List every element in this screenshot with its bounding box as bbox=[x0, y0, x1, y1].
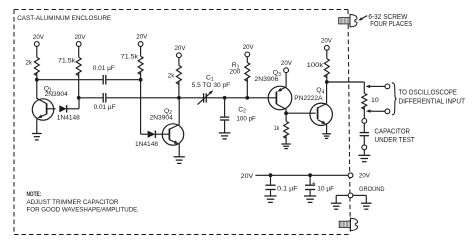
wire output to enclosure edge bbox=[327, 82, 365, 93]
wire ground right arm bbox=[353, 195, 367, 202]
diode D1 1N4148 bbox=[57, 105, 80, 122]
svg-text:CAST-ALUMINUM ENCLOSURE: CAST-ALUMINUM ENCLOSURE bbox=[17, 15, 111, 22]
terminal cap-under-test bottom bbox=[362, 145, 367, 150]
label TO OSCILLOSCOPE bbox=[399, 89, 466, 106]
svg-text:FOUR PLACES: FOUR PLACES bbox=[370, 21, 412, 28]
terminal 20V (71.5k at x=78) bbox=[75, 34, 87, 46]
svg-text:DIFFERENTIAL INPUT: DIFFERENTIAL INPUT bbox=[399, 97, 466, 105]
wire ground left arm bbox=[336, 195, 348, 202]
label 6-32 SCREW bbox=[358, 14, 412, 28]
wire Q2 emitter bbox=[169, 140, 179, 157]
wire bottom rail bbox=[255, 174, 348, 176]
junction rail1-x37 bbox=[35, 78, 39, 82]
junction rail2-x247 bbox=[245, 96, 249, 100]
ground cap-under-test bbox=[358, 155, 370, 161]
junction Q3-collector node bbox=[284, 111, 288, 115]
brace to oscilloscope bbox=[392, 83, 396, 115]
terminal scope upper bbox=[385, 84, 390, 89]
svg-text:2N3904: 2N3904 bbox=[45, 91, 68, 98]
wire Q1 base bbox=[47, 108, 56, 110]
terminal 20V (Q3) bbox=[281, 60, 293, 73]
svg-text:2k: 2k bbox=[26, 59, 33, 66]
svg-text:20V: 20V bbox=[75, 34, 87, 41]
screw bottom-right 6-32 bbox=[339, 218, 357, 230]
capacitor 0.1uF bypass bbox=[265, 175, 297, 196]
wire cut to ground bbox=[363, 149, 365, 155]
svg-text:71.5k: 71.5k bbox=[121, 54, 139, 61]
junction rail1-x141 bbox=[139, 78, 143, 82]
label CAPACITOR UNDER TEST bbox=[375, 128, 416, 144]
transistor Q4 PN2222A bbox=[294, 87, 332, 126]
wire Q3 to Q4 base bbox=[286, 112, 316, 114]
svg-text:6-32 SCREW: 6-32 SCREW bbox=[368, 14, 407, 21]
resistor 71.5k (x=78) bbox=[58, 46, 81, 79]
ground C2 bbox=[219, 133, 231, 139]
svg-text:20V: 20V bbox=[175, 45, 187, 52]
terminal scope lower bbox=[385, 109, 390, 114]
junction rail2-x79 bbox=[77, 96, 81, 100]
svg-text:100 pF: 100 pF bbox=[236, 115, 256, 122]
svg-text:5.5 TO 30 pF: 5.5 TO 30 pF bbox=[192, 82, 231, 89]
svg-text:+: + bbox=[312, 180, 316, 187]
diode D2 1N4148 bbox=[135, 131, 169, 148]
svg-text:0.01 µF: 0.01 µF bbox=[93, 65, 115, 72]
terminal 20V (71.5k at x=141) bbox=[136, 34, 148, 47]
capacitor C2 100pF bbox=[220, 98, 256, 133]
svg-text:ADJUST TRIMMER CAPACITOR: ADJUST TRIMMER CAPACITOR bbox=[27, 199, 119, 206]
ground Q1 bbox=[32, 134, 42, 140]
wire Q2 collector bbox=[169, 98, 179, 129]
transistor Q1 2N3904 bbox=[32, 85, 68, 120]
svg-text:2k: 2k bbox=[168, 73, 175, 80]
terminal GROUND feedthrough bbox=[348, 186, 384, 198]
resistor 10 bbox=[362, 93, 379, 119]
svg-text:1k: 1k bbox=[274, 125, 280, 132]
svg-text:GROUND: GROUND bbox=[359, 186, 385, 193]
junction bottom-x270 bbox=[269, 173, 273, 177]
terminal cap-under-test top bbox=[362, 119, 367, 124]
trimmer capacitor C1 bbox=[192, 75, 231, 105]
ground Q2 bbox=[174, 157, 185, 164]
wire middle rail y98 bbox=[79, 97, 276, 99]
svg-text:20V: 20V bbox=[359, 173, 371, 180]
svg-text:CAPACITOR: CAPACITOR bbox=[375, 128, 411, 135]
svg-text:C2: C2 bbox=[238, 106, 246, 114]
resistor 1k bbox=[274, 113, 289, 143]
wire Q1 collector bbox=[37, 80, 47, 104]
svg-text:TO OSCILLOSCOPE: TO OSCILLOSCOPE bbox=[399, 89, 458, 97]
svg-text:FOR GOOD WAVESHAPE/AMPLITUDE.: FOR GOOD WAVESHAPE/AMPLITUDE. bbox=[27, 207, 140, 214]
enclosure dashed border bbox=[14, 10, 350, 235]
wire Q4 emitter bbox=[318, 120, 327, 134]
terminal 20V (2k at x=179) bbox=[175, 45, 187, 58]
svg-text:2N3904: 2N3904 bbox=[150, 115, 173, 122]
wire scope lower arrow bbox=[366, 109, 385, 112]
note text bbox=[27, 191, 140, 214]
junction bottom-x310 bbox=[308, 173, 312, 177]
svg-text:0.1 µF: 0.1 µF bbox=[277, 186, 298, 193]
transistor Q2 2N3904 bbox=[150, 108, 184, 145]
ground 1k bbox=[281, 144, 290, 149]
svg-text:UNDER TEST: UNDER TEST bbox=[375, 137, 416, 144]
svg-text:20V: 20V bbox=[281, 60, 293, 67]
junction rail2-x179 bbox=[177, 96, 181, 100]
ground left of GROUND terminal bbox=[331, 203, 342, 209]
svg-text:20V: 20V bbox=[243, 44, 255, 51]
wire 71.5k#1 down to rail2 bbox=[78, 80, 80, 98]
capacitor 0.01uF (upper) bbox=[93, 65, 115, 85]
wire scope upper arrow bbox=[366, 85, 386, 88]
svg-text:PN2222A: PN2222A bbox=[294, 95, 323, 102]
ground Q4 bbox=[322, 134, 331, 139]
transistor Q3 2N3906 bbox=[254, 70, 291, 110]
svg-text:10: 10 bbox=[371, 97, 379, 104]
svg-text:2N3906: 2N3906 bbox=[254, 76, 278, 83]
resistor 71.5k (x=141) bbox=[121, 46, 143, 79]
ground 10uF bbox=[304, 196, 316, 202]
svg-text:200: 200 bbox=[230, 69, 241, 76]
svg-text:1N4148: 1N4148 bbox=[57, 115, 80, 122]
wire 71.5k#2 down to D2 bbox=[141, 80, 148, 135]
wire Q4 collector bbox=[318, 82, 327, 108]
wire Q3 emitter bbox=[277, 73, 286, 92]
terminal 20V feedthrough bbox=[348, 173, 370, 180]
wire upper rail y80 bbox=[37, 79, 141, 81]
resistor 2k (left) bbox=[26, 46, 40, 79]
ground 0.1uF bbox=[264, 196, 276, 202]
screw top-right 6-32 bbox=[339, 15, 357, 27]
label 20V bottom-left bbox=[241, 173, 254, 180]
svg-text:20V: 20V bbox=[33, 34, 45, 41]
ground right of GROUND terminal bbox=[361, 203, 372, 209]
svg-text:1N4148: 1N4148 bbox=[135, 141, 158, 148]
capacitor 10uF bypass bbox=[305, 175, 334, 196]
svg-text:100k: 100k bbox=[307, 62, 324, 69]
wire D1 to rail2 bbox=[78, 98, 80, 109]
svg-text:0.01 µF: 0.01 µF bbox=[94, 104, 116, 111]
wire Q1 emitter bbox=[37, 114, 47, 133]
resistor 2k (middle) bbox=[168, 58, 182, 98]
svg-text:20V: 20V bbox=[136, 34, 148, 41]
svg-text:20V: 20V bbox=[241, 173, 254, 180]
junction rail2-x225 bbox=[223, 96, 227, 100]
capacitor 0.01uF (lower) bbox=[94, 93, 116, 111]
label CAST-ALUMINUM ENCLOSURE bbox=[17, 15, 111, 22]
resistor 100k bbox=[307, 50, 330, 82]
svg-text:20V: 20V bbox=[321, 37, 333, 44]
capacitor under test symbol bbox=[360, 123, 369, 145]
wire Q3 collector bbox=[276, 104, 286, 113]
terminal 20V (100k) bbox=[321, 37, 333, 50]
junction 100k-output node bbox=[325, 80, 329, 84]
svg-text:NOTE:: NOTE: bbox=[27, 191, 42, 198]
svg-text:71.5k: 71.5k bbox=[58, 57, 76, 64]
svg-text:10 µF: 10 µF bbox=[317, 186, 334, 193]
terminal 20V (2k R at x=37) bbox=[33, 34, 45, 46]
terminal 20V (R1) bbox=[243, 44, 255, 57]
resistor R1 200 bbox=[230, 57, 250, 98]
